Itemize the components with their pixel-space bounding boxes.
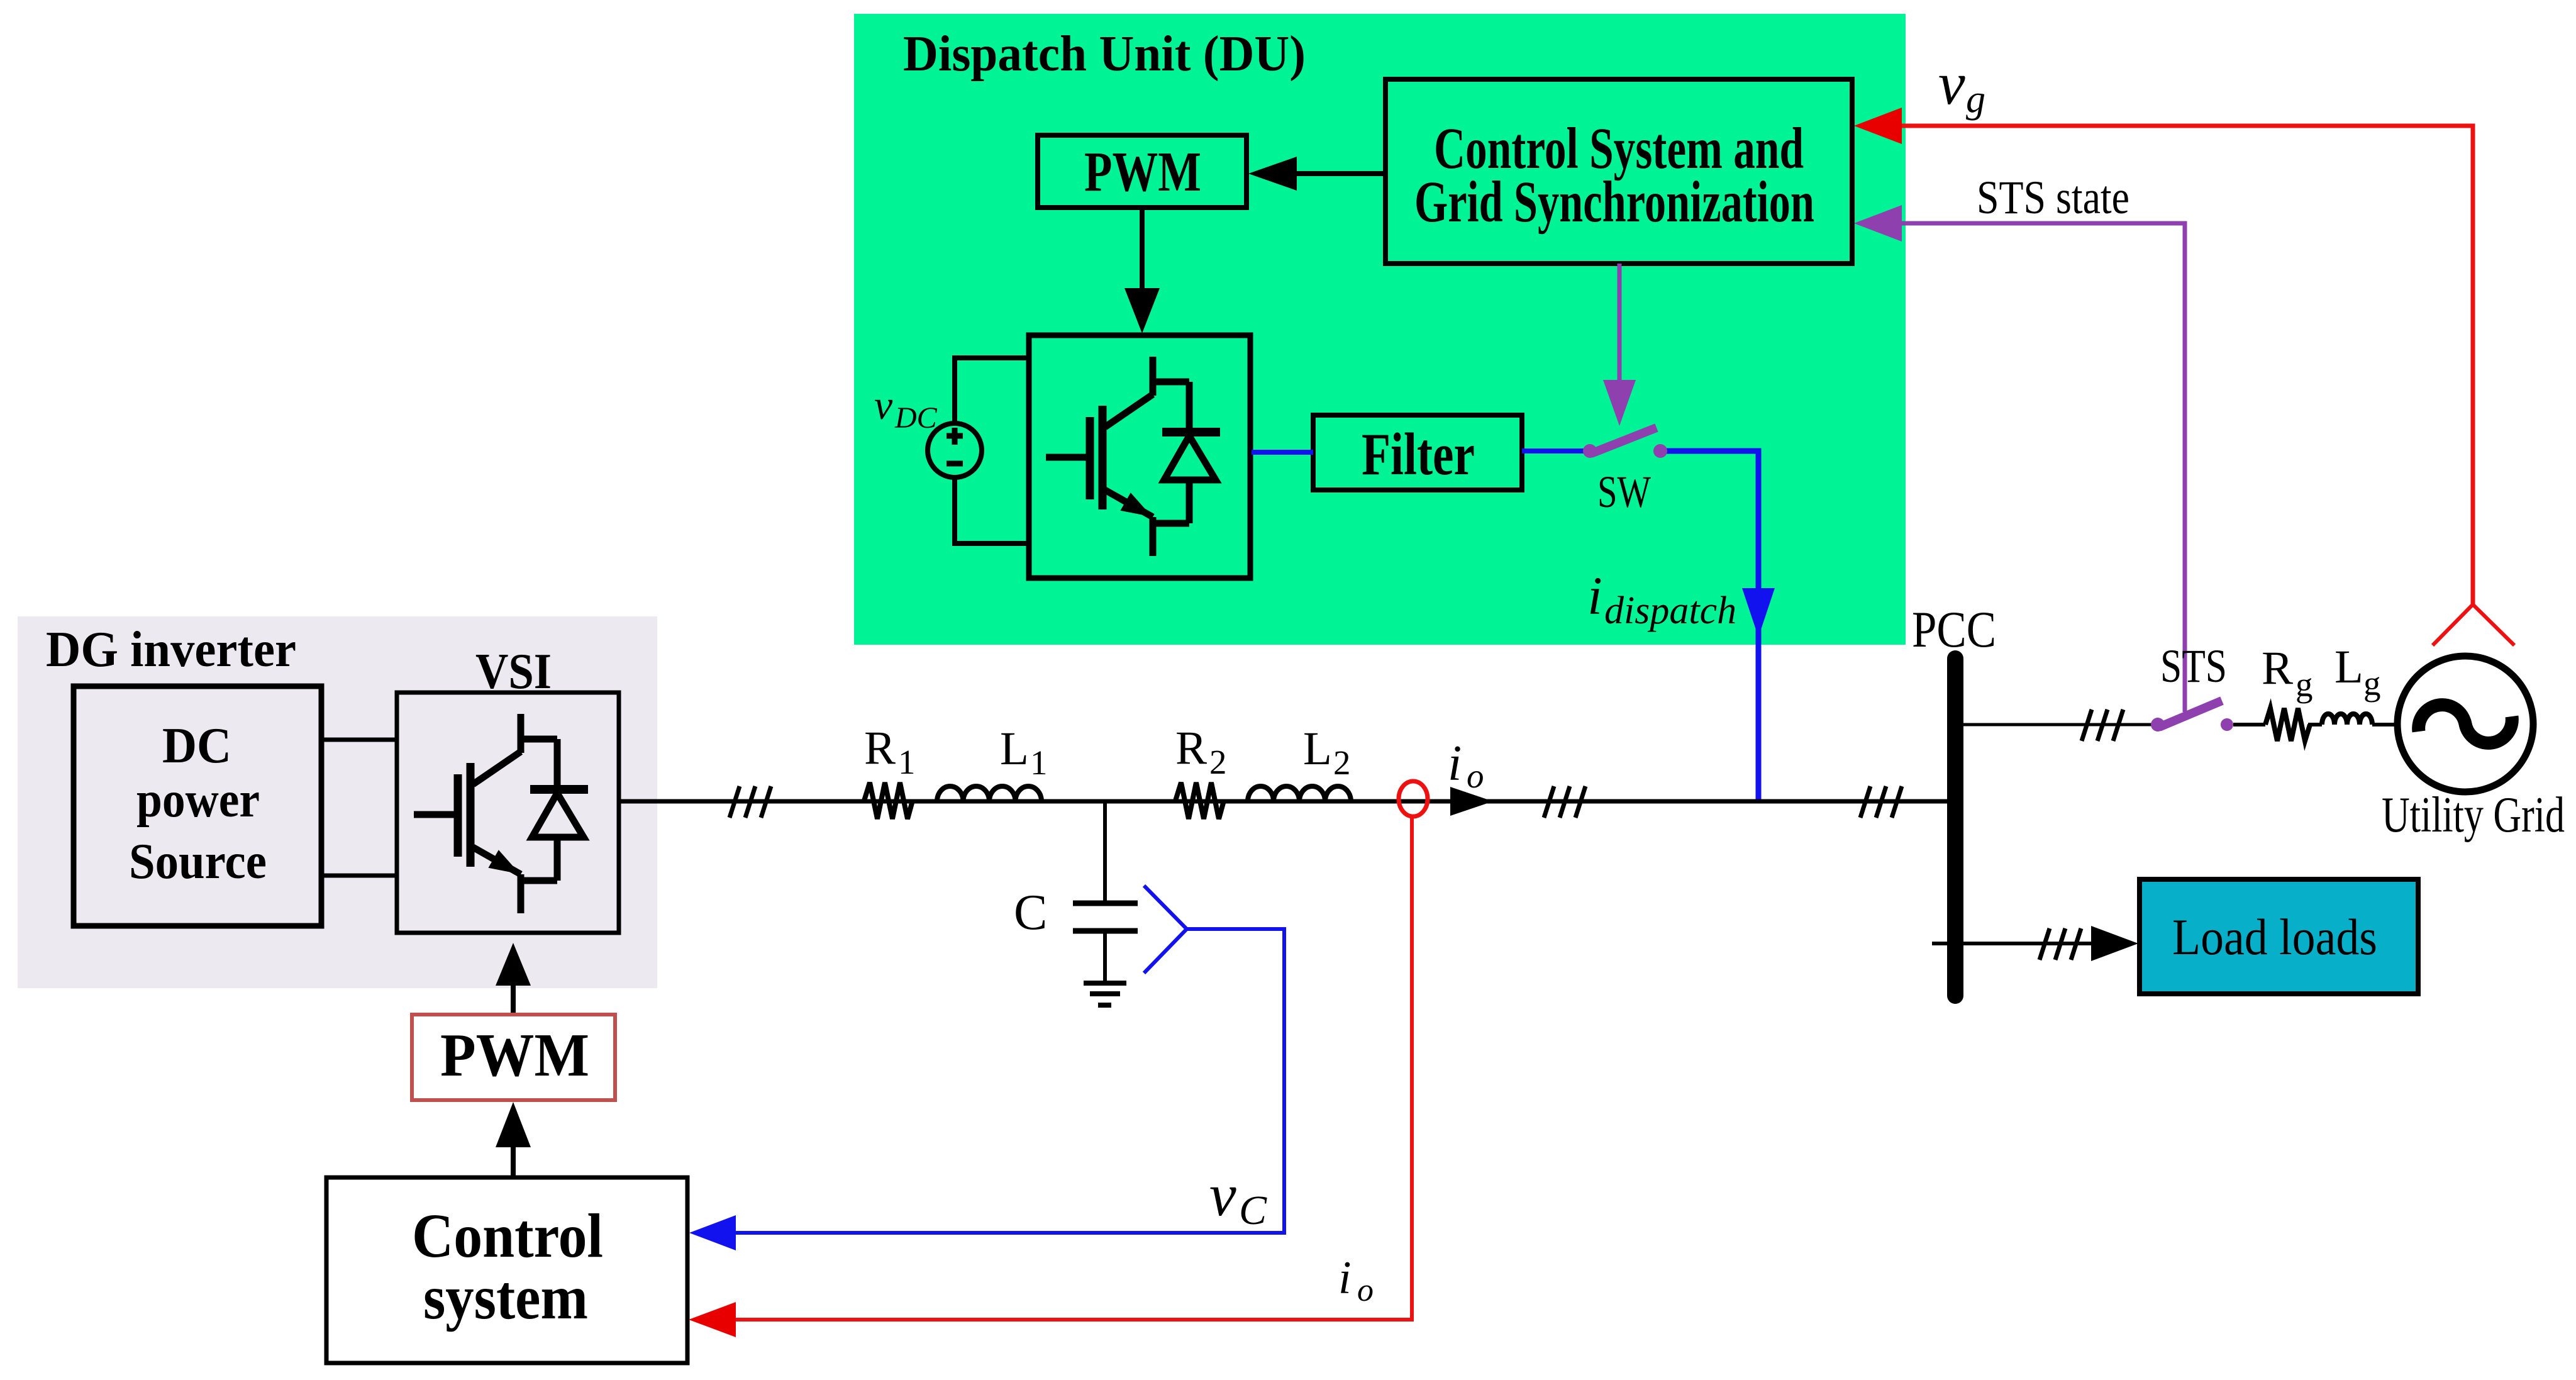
svg-text:dispatch: dispatch: [1604, 589, 1736, 632]
three-phase slashes group 5: [2040, 928, 2081, 960]
svg-text:DG inverter: DG inverter: [46, 622, 296, 677]
svg-text:Filter: Filter: [1362, 421, 1475, 487]
svg-text:1: 1: [898, 743, 916, 781]
svg-text:R: R: [2262, 642, 2293, 694]
svg-text:PWM: PWM: [1084, 141, 1201, 203]
block Control System and Grid Synchronization: [1385, 79, 1852, 264]
load branch from PCC: [1932, 942, 2093, 945]
svg-text:2: 2: [1209, 743, 1227, 781]
svg-text:Source: Source: [129, 834, 267, 889]
svg-text:o: o: [1467, 757, 1484, 795]
arrowhead vc into control system: [689, 1215, 736, 1250]
svg-text:SW: SW: [1597, 467, 1651, 517]
dispatch unit green background: [854, 14, 1906, 645]
svg-text:g: g: [1966, 78, 1985, 121]
current sensor circle (red): [1399, 781, 1428, 816]
resistor R1: [864, 782, 913, 819]
wire Lg to grid: [2372, 723, 2398, 726]
svg-text:power: power: [136, 772, 260, 828]
three-phase slashes group 1: [730, 786, 771, 818]
red vg feedback from grid to control system: [1854, 108, 2514, 645]
block Control system: [326, 1177, 687, 1363]
svg-text:R: R: [1175, 722, 1207, 774]
block VSI: [397, 693, 619, 933]
block DC power Source: [74, 686, 321, 926]
arrow PWM down to dispatch inverter: [1124, 208, 1160, 333]
PCC bus bar: [1947, 659, 1963, 996]
blue probe at capacitor: [1144, 886, 1187, 973]
arrowhead to load: [2091, 926, 2138, 961]
arrow PWM to VSI: [496, 943, 531, 1015]
bus arrowhead after sensor: [1450, 787, 1493, 816]
red io feedback wire: [735, 816, 1412, 1320]
purple STS state feedback to control system: [1854, 205, 2185, 712]
svg-text:STS state: STS state: [1977, 172, 2129, 224]
transistor IGBT cell (dispatch inverter): [1046, 357, 1220, 556]
svg-text:L: L: [1000, 723, 1029, 775]
svg-text:v: v: [1938, 50, 1965, 117]
svg-text:Control: Control: [412, 1201, 603, 1271]
svg-text:C: C: [1239, 1188, 1267, 1233]
svg-text:2: 2: [1333, 743, 1351, 782]
arrowhead io into control system: [689, 1302, 736, 1337]
three-phase slashes group 4: [2082, 709, 2123, 741]
svg-text:g: g: [2363, 664, 2381, 703]
three-phase slashes group 2: [1544, 786, 1585, 818]
svg-text:i: i: [1448, 736, 1462, 791]
svg-text:DC: DC: [894, 401, 938, 435]
branch PCC to STS: [1963, 723, 2158, 726]
svg-text:i: i: [1587, 565, 1602, 626]
switch SW (purple): [1583, 428, 1667, 458]
vdc source circle: [928, 423, 982, 477]
switch STS (purple): [2151, 701, 2233, 732]
block PWM (red box): [412, 1015, 615, 1100]
sine symbol: [2419, 705, 2512, 743]
wire inverter to filter (blue): [1252, 450, 1313, 455]
dispatch inverter box: [1029, 335, 1250, 578]
capacitor C: [1073, 903, 1138, 931]
arrow Control System to PWM: [1248, 157, 1385, 191]
resistor Rg: [2265, 708, 2310, 741]
wire filter to switch (blue): [1522, 448, 1585, 454]
three-phase slashes group 3: [1860, 786, 1902, 818]
inductor Lg: [2322, 714, 2372, 725]
wire STS to Rg: [2233, 723, 2265, 726]
svg-text:Load loads: Load loads: [2172, 908, 2377, 965]
purple arrow control system to SW: [1603, 264, 1636, 426]
svg-text:PCC: PCC: [1912, 601, 1996, 658]
blue vc feedback wire: [735, 929, 1284, 1233]
transistor IGBT cell (VSI): [414, 714, 588, 913]
svg-text:DC: DC: [162, 718, 231, 774]
svg-text:L: L: [1303, 723, 1332, 775]
ground: [1084, 983, 1126, 1005]
svg-text:R: R: [864, 722, 896, 774]
block Load loads: [2140, 879, 2418, 994]
svg-text:Grid Synchronization: Grid Synchronization: [1414, 170, 1814, 235]
wires DC source to VSI: [321, 740, 397, 876]
svg-text:Dispatch Unit (DU): Dispatch Unit (DU): [903, 26, 1306, 82]
svg-text:v: v: [1209, 1161, 1236, 1228]
wire junction to capacitor: [1103, 801, 1107, 903]
svg-text:Utility Grid: Utility Grid: [2382, 787, 2565, 843]
block PWM (dispatch unit): [1038, 135, 1246, 208]
svg-text:1: 1: [1030, 743, 1048, 782]
utility grid source circle: [2397, 656, 2533, 792]
DG inverter lavender background: [18, 616, 657, 988]
arrow Control system to PWM: [496, 1102, 531, 1177]
wire switch to corner and down to bus (blue): [1667, 451, 1758, 801]
svg-text:o: o: [1357, 1272, 1374, 1308]
inductor L1: [937, 786, 1041, 801]
svg-text:i: i: [1338, 1252, 1352, 1304]
svg-text:STS: STS: [2160, 640, 2227, 693]
svg-text:L: L: [2334, 641, 2363, 693]
svg-text:system: system: [423, 1262, 588, 1332]
block Filter: [1313, 415, 1522, 490]
arrowhead i dispatch (blue): [1742, 588, 1775, 637]
svg-text:g: g: [2296, 665, 2313, 704]
resistor R2: [1175, 782, 1224, 819]
wire Rg to Lg: [2308, 723, 2322, 726]
svg-text:PWM: PWM: [440, 1021, 589, 1089]
inductor L2: [1248, 786, 1351, 801]
svg-text:C: C: [1014, 885, 1047, 940]
main bus wire: [619, 799, 1950, 804]
wire vdc to inverter: [955, 358, 1029, 543]
svg-text:v: v: [874, 382, 893, 428]
